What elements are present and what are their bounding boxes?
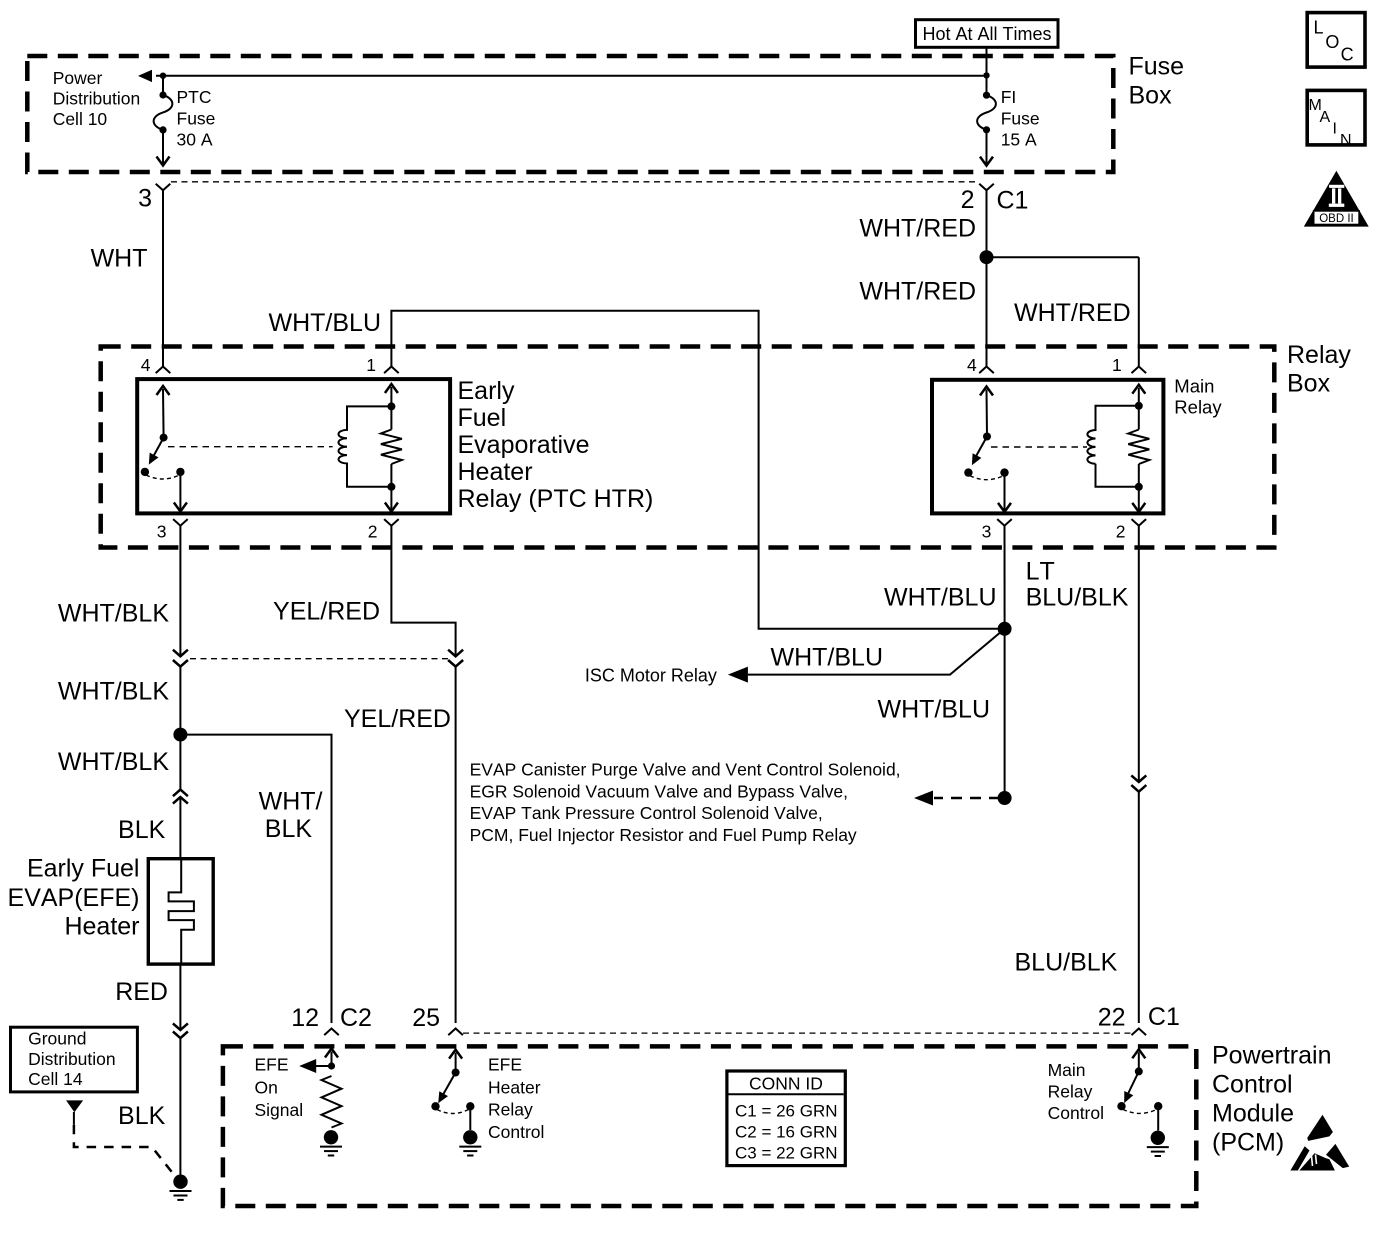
PCM pin 25 inner arrow bbox=[449, 1050, 462, 1073]
PCM pin 12 inner arrow bbox=[325, 1049, 338, 1067]
svg-text:1: 1 bbox=[366, 355, 376, 375]
pin 2 label bbox=[961, 186, 975, 214]
svg-text:WHT/BLU: WHT/BLU bbox=[269, 309, 382, 337]
svg-text:Ground: Ground bbox=[28, 1029, 86, 1049]
Main Relay Control label bbox=[1048, 1060, 1104, 1123]
wire WHT/BLU down bbox=[1004, 629, 1006, 798]
svg-text:Fuse: Fuse bbox=[1001, 108, 1040, 128]
wire to ISC motor relay bbox=[748, 629, 1005, 675]
PCM pin 22 contact dot bbox=[1117, 1102, 1125, 1110]
chevron pair RED down bbox=[173, 1023, 188, 1038]
svg-text:LT: LT bbox=[1026, 558, 1055, 586]
svg-text:Heater: Heater bbox=[488, 1078, 541, 1098]
EFE relay coil bottom dot bbox=[387, 483, 395, 491]
PCM pin 25 ground stem bbox=[469, 1106, 471, 1130]
wire WHT/BLU from EFE relay pin 1 bbox=[391, 311, 1004, 629]
connector main relay pin 1 bbox=[1132, 367, 1147, 374]
svg-text:WHT/BLU: WHT/BLU bbox=[884, 584, 997, 612]
EFE relay switch blade bbox=[149, 438, 164, 465]
EFE relay switch pivot dot bbox=[160, 434, 168, 442]
PCM pin 22 dashed link bbox=[1123, 1109, 1157, 1113]
svg-text:ISC Motor Relay: ISC Motor Relay bbox=[585, 666, 717, 686]
WHT/RED label 2 bbox=[859, 278, 976, 306]
svg-text:A: A bbox=[1320, 109, 1331, 126]
svg-text:WHT/RED: WHT/RED bbox=[859, 214, 976, 242]
relay Main body bbox=[932, 380, 1163, 514]
main relay pin 1 inner arrow bbox=[1132, 385, 1145, 406]
wire WHT/BLK branch bbox=[180, 735, 331, 1023]
svg-text:WHT/BLU: WHT/BLU bbox=[771, 643, 884, 671]
connector EFE relay pin 4 bbox=[156, 367, 171, 374]
main relay switch pivot dot bbox=[983, 433, 991, 441]
svg-text:Main: Main bbox=[1174, 375, 1214, 396]
PCM pin 25 dashed link bbox=[437, 1110, 469, 1114]
svg-text:Box: Box bbox=[1129, 82, 1173, 110]
PCM connector dashed line bbox=[463, 1032, 1131, 1034]
PCM pin 25 switch dot bbox=[452, 1069, 460, 1077]
svg-text:WHT/BLK: WHT/BLK bbox=[58, 678, 169, 706]
EFE relay actuation dashed line bbox=[168, 446, 333, 448]
arrow PTC out bbox=[157, 157, 170, 166]
wire FI fuse bottom bbox=[986, 130, 988, 166]
EFE relay pin 1 inner arrow bbox=[385, 384, 398, 406]
wire WHT/BLK upper bbox=[179, 526, 181, 657]
svg-text:Early Fuel: Early Fuel bbox=[27, 855, 140, 883]
svg-text:22: 22 bbox=[1098, 1004, 1126, 1032]
EFE relay label bbox=[458, 377, 654, 513]
svg-text:Module: Module bbox=[1212, 1100, 1294, 1128]
svg-text:YEL/RED: YEL/RED bbox=[344, 705, 451, 733]
svg-text:4: 4 bbox=[967, 355, 977, 375]
relay box label bbox=[1287, 341, 1351, 398]
connector main relay pin 4 bbox=[979, 367, 994, 374]
EFE Heater Relay Control label bbox=[488, 1055, 544, 1143]
main relay contact 2 dot bbox=[1000, 468, 1008, 476]
EFE relay switch dashed link bbox=[146, 475, 180, 479]
svg-text:OBD II: OBD II bbox=[1319, 213, 1354, 225]
main relay pin 2 stem bbox=[1132, 487, 1145, 512]
svg-text:2: 2 bbox=[368, 522, 378, 542]
svg-text:C3 = 22 GRN: C3 = 22 GRN bbox=[735, 1144, 838, 1163]
RED label bbox=[115, 978, 168, 1006]
main relay pin 2 number bbox=[1116, 522, 1126, 542]
svg-text:PTC: PTC bbox=[177, 87, 212, 107]
svg-text:Relay: Relay bbox=[1174, 396, 1222, 417]
svg-text:EVAP Canister Purge Valve and: EVAP Canister Purge Valve and Vent Contr… bbox=[470, 760, 901, 780]
BLK label 2 bbox=[118, 1102, 166, 1130]
chevron pair BLK up bbox=[173, 790, 188, 804]
svg-text:Relay: Relay bbox=[488, 1100, 533, 1120]
svg-text:EFE: EFE bbox=[255, 1055, 289, 1075]
svg-text:EVAP Tank Pressure Control Sol: EVAP Tank Pressure Control Solenoid Valv… bbox=[470, 803, 823, 823]
EFE relay pin 3 stem bbox=[174, 472, 187, 512]
fuse PTC 30A bbox=[154, 91, 173, 133]
main relay pin 4 number bbox=[967, 355, 977, 375]
svg-text:WHT: WHT bbox=[91, 245, 148, 273]
junction dot F1 tap bbox=[983, 72, 989, 78]
PCM pin 25 ground bbox=[459, 1130, 481, 1155]
ESD icon bbox=[1290, 1115, 1349, 1171]
svg-text:On: On bbox=[255, 1078, 278, 1098]
wire YEL/RED lower bbox=[455, 667, 457, 1023]
Power Distribution Cell 10 label bbox=[53, 68, 141, 129]
main relay switch arm arrow bbox=[980, 387, 993, 437]
PCM EFE On Signal wire bbox=[316, 1065, 332, 1067]
connector main relay pin 3 bbox=[997, 519, 1012, 526]
svg-text:Main: Main bbox=[1048, 1060, 1086, 1080]
svg-text:Control: Control bbox=[1212, 1071, 1293, 1099]
svg-text:30 A: 30 A bbox=[177, 130, 213, 150]
connector EFE relay pin 3 bbox=[173, 519, 188, 526]
relay EFE (PTC HTR) body bbox=[137, 379, 450, 513]
PCM pin 22 ground bbox=[1147, 1131, 1169, 1156]
wire WHT/RED branch horizontal bbox=[987, 256, 1139, 258]
YEL/RED label 1 bbox=[273, 598, 380, 626]
svg-text:CONN ID: CONN ID bbox=[749, 1074, 823, 1094]
svg-text:Powertrain: Powertrain bbox=[1212, 1042, 1332, 1070]
wire WHT/BLK lower bbox=[179, 735, 181, 790]
svg-text:Heater: Heater bbox=[458, 458, 533, 486]
svg-text:3: 3 bbox=[138, 185, 152, 213]
YEL/RED label 2 bbox=[344, 705, 451, 733]
relay box (dashed) bbox=[101, 347, 1275, 548]
EFE relay pin 1 number bbox=[366, 355, 376, 375]
wire WHT/RED upper bbox=[986, 210, 988, 257]
wire WHT/RED to main relay pin 4 bbox=[986, 257, 988, 366]
wire LT BLU/BLK lower bbox=[1138, 792, 1140, 1023]
connector EFE relay pin 1 bbox=[384, 367, 399, 374]
main relay label bbox=[1174, 375, 1222, 417]
wire WHT/BLK mid bbox=[179, 667, 181, 735]
dashed wire to EVAP loads bbox=[934, 797, 1000, 800]
svg-text:Relay: Relay bbox=[1048, 1082, 1093, 1102]
pin 22 C1 label bbox=[1148, 1003, 1180, 1031]
PCM pin 12 ground bbox=[320, 1130, 342, 1155]
pin 22 label bbox=[1098, 1004, 1126, 1032]
wire BLK to ground bbox=[179, 1038, 181, 1182]
PCM pin 12 node dot bbox=[328, 1062, 335, 1069]
connector C1 label bbox=[997, 187, 1029, 215]
svg-text:Cell 10: Cell 10 bbox=[53, 109, 108, 129]
EFE relay resistor stem bbox=[390, 406, 392, 486]
connector PCM pin 22 bbox=[1132, 1029, 1147, 1036]
arrow to Power Distribution bbox=[138, 70, 152, 82]
connector EFE relay pin 2 bbox=[384, 519, 399, 526]
fuse box (dashed) bbox=[27, 56, 1113, 172]
PCM EFE On Signal arrow bbox=[299, 1059, 316, 1073]
svg-text:C2 = 16 GRN: C2 = 16 GRN bbox=[735, 1123, 838, 1142]
Hot At All Times box bbox=[916, 20, 1059, 48]
EFE relay contact 2 dot bbox=[176, 468, 184, 476]
svg-text:Box: Box bbox=[1287, 370, 1331, 398]
svg-text:C1: C1 bbox=[997, 187, 1029, 215]
svg-text:3: 3 bbox=[982, 522, 992, 542]
junction node WHT/BLK bbox=[173, 728, 187, 742]
ground distribution triangle bbox=[66, 1100, 83, 1124]
EFE relay coil top dot bbox=[387, 402, 395, 410]
svg-text:PCM, Fuel Injector Resistor an: PCM, Fuel Injector Resistor and Fuel Pum… bbox=[470, 825, 857, 845]
chevron pair BLU/BLK bbox=[1131, 775, 1146, 791]
svg-text:Distribution: Distribution bbox=[53, 89, 141, 109]
inline connector dashed line bbox=[190, 658, 449, 660]
inline connector right bbox=[448, 650, 463, 667]
svg-text:EVAP(EFE): EVAP(EFE) bbox=[8, 884, 140, 912]
EFE relay pin 3 number bbox=[157, 522, 167, 542]
pin 12 C2 label bbox=[340, 1004, 372, 1032]
connector pin 3 fuse box bbox=[156, 184, 171, 210]
connector PCM pin 25 bbox=[448, 1029, 463, 1036]
PCM box (dashed) bbox=[223, 1046, 1196, 1206]
svg-text:2: 2 bbox=[1116, 522, 1126, 542]
wire WHT/RED branch vertical bbox=[1138, 257, 1140, 366]
WHT/RED label 1 bbox=[859, 214, 976, 242]
arrow to ISC motor relay bbox=[728, 667, 748, 683]
svg-text:Fuse: Fuse bbox=[1129, 53, 1185, 81]
EFE relay resistor bbox=[381, 430, 402, 464]
ground distribution dashed wire bbox=[74, 1125, 177, 1179]
junction dot PTC tap bbox=[160, 73, 166, 79]
wire LT BLU/BLK upper bbox=[1138, 526, 1140, 782]
LT BLU/BLK label bbox=[1026, 558, 1129, 612]
wire WHT bbox=[162, 210, 164, 367]
main relay switch contact dot bbox=[964, 468, 972, 476]
EFE On Signal label bbox=[255, 1055, 304, 1121]
main relay coil bottom dot bbox=[1135, 483, 1143, 491]
junction node WHT/BLU bbox=[998, 622, 1012, 636]
WHT/BLK label 3 bbox=[58, 748, 169, 776]
pin 25 label bbox=[412, 1004, 440, 1032]
main relay resistor bbox=[1128, 430, 1149, 464]
EVAP loads label bbox=[470, 760, 901, 845]
svg-text:C1: C1 bbox=[1148, 1003, 1180, 1031]
svg-text:L: L bbox=[1314, 18, 1324, 38]
svg-text:3: 3 bbox=[157, 522, 167, 542]
wire YEL/RED upper bbox=[391, 526, 455, 657]
svg-text:Control: Control bbox=[1048, 1103, 1104, 1123]
PCM pin 22 contact 2 dot bbox=[1154, 1102, 1162, 1110]
svg-text:I: I bbox=[1333, 121, 1337, 138]
wire PTC fuse top bbox=[162, 76, 164, 95]
pin 3 label bbox=[138, 185, 152, 213]
arrow to EVAP loads bbox=[914, 791, 933, 806]
svg-text:2: 2 bbox=[961, 186, 975, 214]
PCM pin 22 inner arrow bbox=[1132, 1049, 1145, 1071]
WHT/BLU label pin3 bbox=[884, 584, 997, 612]
ground G101 bbox=[170, 1175, 192, 1200]
svg-text:BLU/BLK: BLU/BLK bbox=[1015, 949, 1118, 977]
main relay coil top dot bbox=[1135, 402, 1143, 410]
wire PTC fuse bottom bbox=[162, 130, 164, 166]
connector PCM pin 12 bbox=[324, 1029, 339, 1036]
heater EFE body bbox=[148, 859, 213, 964]
WHT/BLK branch label bbox=[259, 788, 323, 844]
svg-text:1: 1 bbox=[1112, 355, 1122, 375]
WHT/BLU label ISC bbox=[771, 643, 884, 671]
BLU/BLK label bbox=[1015, 949, 1118, 977]
svg-text:EGR Solenoid Vacuum Valve and: EGR Solenoid Vacuum Valve and Bypass Val… bbox=[470, 781, 848, 801]
EFE relay pin 4 number bbox=[141, 355, 151, 375]
svg-text:Relay: Relay bbox=[1287, 341, 1351, 369]
PCM pin 22 ground stem bbox=[1157, 1106, 1159, 1130]
svg-text:WHT/: WHT/ bbox=[259, 788, 323, 816]
EFE relay pin 2 stem bbox=[385, 487, 398, 512]
fuse box label bbox=[1129, 53, 1185, 110]
EFE relay switch contact dot bbox=[141, 468, 149, 476]
svg-text:WHT/RED: WHT/RED bbox=[859, 278, 976, 306]
svg-text:Fuse: Fuse bbox=[177, 108, 216, 128]
svg-text:WHT/BLK: WHT/BLK bbox=[58, 600, 169, 628]
PCM pin 25 contact 2 dot bbox=[466, 1102, 474, 1110]
pin 12 label bbox=[291, 1004, 319, 1032]
main relay pin 3 number bbox=[982, 522, 992, 542]
wire bus in fuse box bbox=[156, 75, 987, 77]
svg-text:Control: Control bbox=[488, 1122, 544, 1142]
PCM pin 25 switch blade bbox=[438, 1073, 455, 1104]
svg-text:Early: Early bbox=[458, 377, 515, 405]
BLK label bbox=[118, 816, 166, 844]
svg-text:12: 12 bbox=[291, 1004, 319, 1032]
svg-text:15 A: 15 A bbox=[1001, 130, 1037, 150]
wire RED bbox=[179, 964, 181, 1030]
svg-text:WHT/RED: WHT/RED bbox=[1014, 299, 1131, 327]
wire Hot At All Times feed bbox=[986, 47, 988, 95]
wire BLK to heater bbox=[179, 797, 181, 859]
svg-text:(PCM): (PCM) bbox=[1212, 1129, 1284, 1157]
svg-text:EFE: EFE bbox=[488, 1055, 522, 1075]
PCM label bbox=[1212, 1042, 1332, 1157]
svg-text:BLU/BLK: BLU/BLK bbox=[1026, 583, 1129, 611]
WHT/BLK label 2 bbox=[58, 678, 169, 706]
arrow FI out bbox=[980, 157, 993, 166]
PCM pull resistor bbox=[322, 1076, 342, 1127]
svg-text:25: 25 bbox=[412, 1004, 440, 1032]
main relay coil bbox=[1087, 406, 1138, 487]
svg-text:Heater: Heater bbox=[64, 913, 139, 941]
PCM pin 22 switch blade bbox=[1124, 1071, 1139, 1103]
svg-text:Signal: Signal bbox=[255, 1100, 304, 1120]
WHT label bbox=[91, 245, 148, 273]
EFE relay coil bbox=[339, 406, 392, 486]
fuse FI 15A bbox=[977, 92, 996, 134]
svg-text:Hot At All Times: Hot At All Times bbox=[922, 24, 1051, 44]
WHT/RED label 3 bbox=[1014, 299, 1131, 327]
svg-text:C: C bbox=[1341, 45, 1354, 65]
junction node WHT/RED bbox=[980, 250, 994, 264]
main relay pin 3 stem bbox=[998, 473, 1011, 512]
inline connector left bbox=[173, 650, 188, 667]
svg-text:Evaporative: Evaporative bbox=[458, 431, 590, 459]
CONN ID table bbox=[727, 1071, 845, 1166]
svg-text:BLK: BLK bbox=[118, 1102, 166, 1130]
svg-text:C2: C2 bbox=[340, 1004, 372, 1032]
svg-text:BLK: BLK bbox=[265, 815, 313, 843]
PCM pin 22 switch dot bbox=[1135, 1067, 1143, 1075]
svg-text:FI: FI bbox=[1001, 87, 1017, 107]
main relay resistor stem bbox=[1138, 406, 1140, 487]
heater EFE label bbox=[8, 855, 140, 941]
OBD II icon bbox=[1304, 171, 1369, 227]
WHT/BLU label lower bbox=[878, 696, 991, 724]
fuse PTC label bbox=[177, 87, 216, 150]
svg-text:N: N bbox=[1340, 132, 1352, 149]
fuse FI label bbox=[1001, 87, 1040, 150]
svg-text:O: O bbox=[1325, 32, 1339, 52]
junction node EVAP feed bbox=[998, 791, 1012, 805]
svg-text:BLK: BLK bbox=[118, 816, 166, 844]
svg-text:C1 = 26 GRN: C1 = 26 GRN bbox=[735, 1102, 838, 1121]
svg-text:WHT/BLK: WHT/BLK bbox=[58, 748, 169, 776]
ISC Motor Relay label bbox=[585, 666, 717, 686]
svg-text:Cell 14: Cell 14 bbox=[28, 1069, 83, 1089]
main relay switch blade bbox=[972, 437, 987, 466]
svg-text:Fuel: Fuel bbox=[458, 404, 507, 432]
main relay switch dashed link bbox=[970, 476, 1004, 480]
EFE relay switch arm arrow bbox=[157, 386, 170, 438]
WHT/BLK label 1 bbox=[58, 600, 169, 628]
main relay actuation dashed line bbox=[991, 446, 1087, 448]
wire WHT/BLU main relay pin 3 bbox=[1004, 526, 1006, 629]
svg-text:Relay (PTC HTR): Relay (PTC HTR) bbox=[458, 485, 654, 513]
main relay pin 1 number bbox=[1112, 355, 1122, 375]
svg-text:4: 4 bbox=[141, 355, 151, 375]
WHT/BLU label top bbox=[269, 309, 382, 337]
LOC icon bbox=[1307, 13, 1365, 68]
svg-text:Distribution: Distribution bbox=[28, 1049, 116, 1069]
svg-text:RED: RED bbox=[115, 978, 168, 1006]
svg-text:WHT/BLU: WHT/BLU bbox=[878, 696, 991, 724]
PCM pin 25 contact dot bbox=[431, 1102, 439, 1110]
fuse box connector dashed line bbox=[171, 181, 978, 183]
connector main relay pin 2 bbox=[1132, 519, 1147, 526]
MAIN icon bbox=[1307, 90, 1365, 149]
svg-text:Power: Power bbox=[53, 68, 103, 88]
Ground Distribution Cell 14 box bbox=[11, 1027, 138, 1092]
svg-text:YEL/RED: YEL/RED bbox=[273, 598, 380, 626]
EFE relay pin 2 number bbox=[368, 522, 378, 542]
heater EFE element bbox=[169, 859, 194, 964]
connector pin 2 C1 fuse box bbox=[979, 184, 994, 210]
